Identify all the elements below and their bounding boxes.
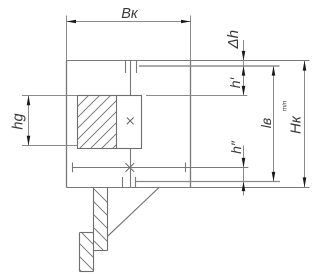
gusset diagonal	[108, 188, 160, 237]
wire: line A with end bars	[73, 167, 249, 169]
wire: Вк right extension line	[190, 16, 192, 61]
arrow: h'' up to line B	[242, 182, 246, 192]
inlet pipe left tick	[125, 61, 127, 74]
body right wall	[190, 61, 192, 188]
arrow: lв down	[272, 172, 276, 182]
svg-text:hg: hg	[11, 113, 27, 129]
body left wall	[66, 61, 68, 188]
wire: Вк left extension line	[66, 16, 68, 61]
box divider	[116, 96, 118, 149]
arrow: Вк right	[181, 20, 191, 24]
drain strip left edge	[93, 188, 95, 272]
arrow: dh down to body top	[242, 51, 246, 61]
arrow: lв up	[272, 66, 276, 76]
outlet pipe axis	[130, 149, 132, 188]
arrow: hg up	[27, 96, 31, 106]
svg-text:h′: h′	[227, 76, 243, 88]
outlet pipe left tick	[122, 177, 124, 188]
svg-text:min: min	[282, 100, 289, 111]
arrow: Вк left	[67, 20, 77, 24]
foot bottom	[80, 271, 94, 273]
arrow: hg down	[27, 136, 31, 146]
bar: line A left end	[72, 163, 74, 173]
inlet pipe right tick	[136, 61, 138, 74]
svg-text:Нк: Нк	[288, 115, 305, 134]
bar: line A right end	[185, 163, 187, 173]
arrow: dh/h' up to water level	[242, 66, 246, 76]
outlet pipe right tick	[135, 177, 137, 188]
drain strip right edge	[107, 188, 109, 251]
body bottom edge + extension to Нк	[67, 187, 310, 189]
svg-text:h″: h″	[228, 140, 244, 154]
strip hatching \	[60, 155, 160, 274]
wire: line B outlet level	[136, 181, 281, 183]
body top edge + extension to Нк	[67, 60, 310, 62]
inlet pipe axis	[130, 61, 132, 96]
arrow: Нк down	[303, 177, 307, 187]
svg-text:Δh: Δh	[225, 30, 242, 50]
wire: hg top extension	[22, 95, 78, 97]
svg-text:Вк: Вк	[121, 6, 139, 22]
wire: Нк dimension line	[304, 61, 306, 188]
wire: h'' shaft lower	[243, 146, 245, 196]
wire: dh/h' shaft upper	[243, 40, 245, 96]
foot hatching \	[50, 201, 150, 274]
node ×2 on line A	[126, 163, 135, 172]
water level line	[139, 65, 280, 67]
foot left edge	[79, 233, 81, 272]
wire: lв dimension line	[273, 66, 275, 182]
arrow: h'' down to line A	[242, 158, 246, 168]
node ×1 valve mark	[127, 118, 134, 125]
wire: Вк dimension line	[67, 21, 191, 23]
box hatching /	[0, 60, 212, 274]
wire: h' lower reference line	[146, 95, 247, 97]
arrow: Нк up	[303, 61, 307, 71]
wire: hg bottom extension	[22, 145, 78, 147]
wire: hg dimension line	[28, 96, 30, 146]
foot top	[80, 232, 94, 234]
arrow: h' down	[242, 86, 246, 96]
drain strip bottom	[94, 250, 108, 252]
hatched box outline	[78, 96, 142, 149]
svg-text:lв: lв	[258, 118, 274, 128]
